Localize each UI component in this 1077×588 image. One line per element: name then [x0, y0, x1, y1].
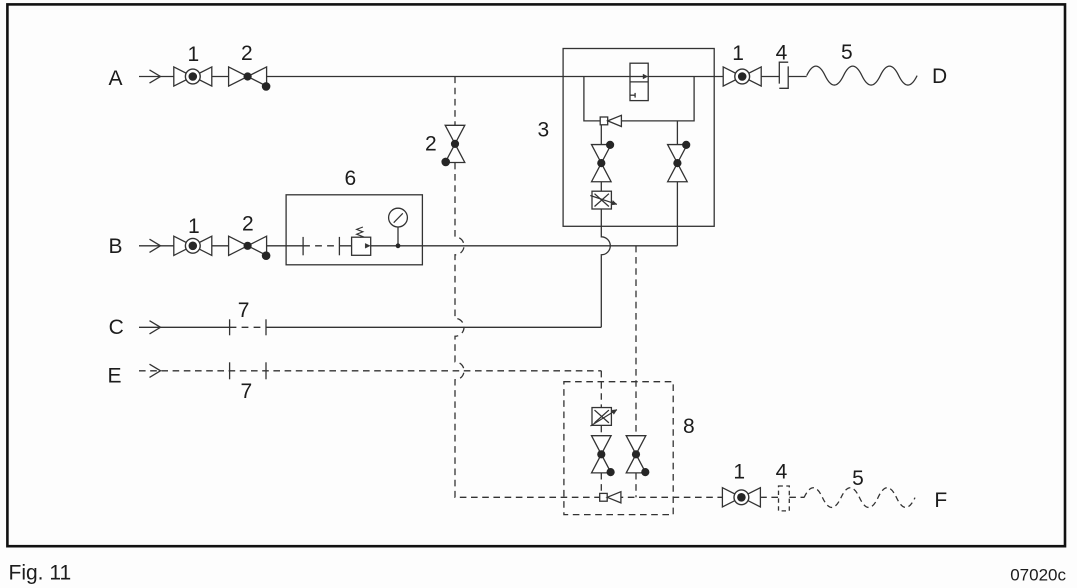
svg-text:B: B — [108, 235, 122, 258]
svg-text:1: 1 — [188, 215, 200, 238]
svg-text:7: 7 — [238, 299, 250, 322]
svg-text:2: 2 — [242, 213, 254, 236]
svg-text:1: 1 — [732, 42, 744, 65]
svg-text:C: C — [109, 316, 124, 339]
svg-text:A: A — [108, 67, 122, 90]
svg-text:4: 4 — [776, 461, 788, 484]
svg-text:Fig. 11: Fig. 11 — [9, 562, 72, 585]
svg-text:6: 6 — [345, 167, 357, 190]
svg-text:E: E — [107, 365, 121, 388]
svg-text:D: D — [932, 65, 947, 88]
svg-text:2: 2 — [425, 132, 437, 155]
svg-text:3: 3 — [538, 119, 550, 142]
svg-text:2: 2 — [241, 42, 253, 65]
svg-text:7: 7 — [240, 380, 252, 403]
svg-text:5: 5 — [841, 41, 853, 64]
svg-text:1: 1 — [733, 461, 745, 484]
svg-text:1: 1 — [187, 43, 199, 66]
svg-text:8: 8 — [683, 415, 695, 438]
svg-text:5: 5 — [852, 467, 864, 490]
svg-text:F: F — [934, 489, 947, 512]
svg-text:07020c: 07020c — [1010, 566, 1066, 585]
svg-text:4: 4 — [776, 42, 788, 65]
